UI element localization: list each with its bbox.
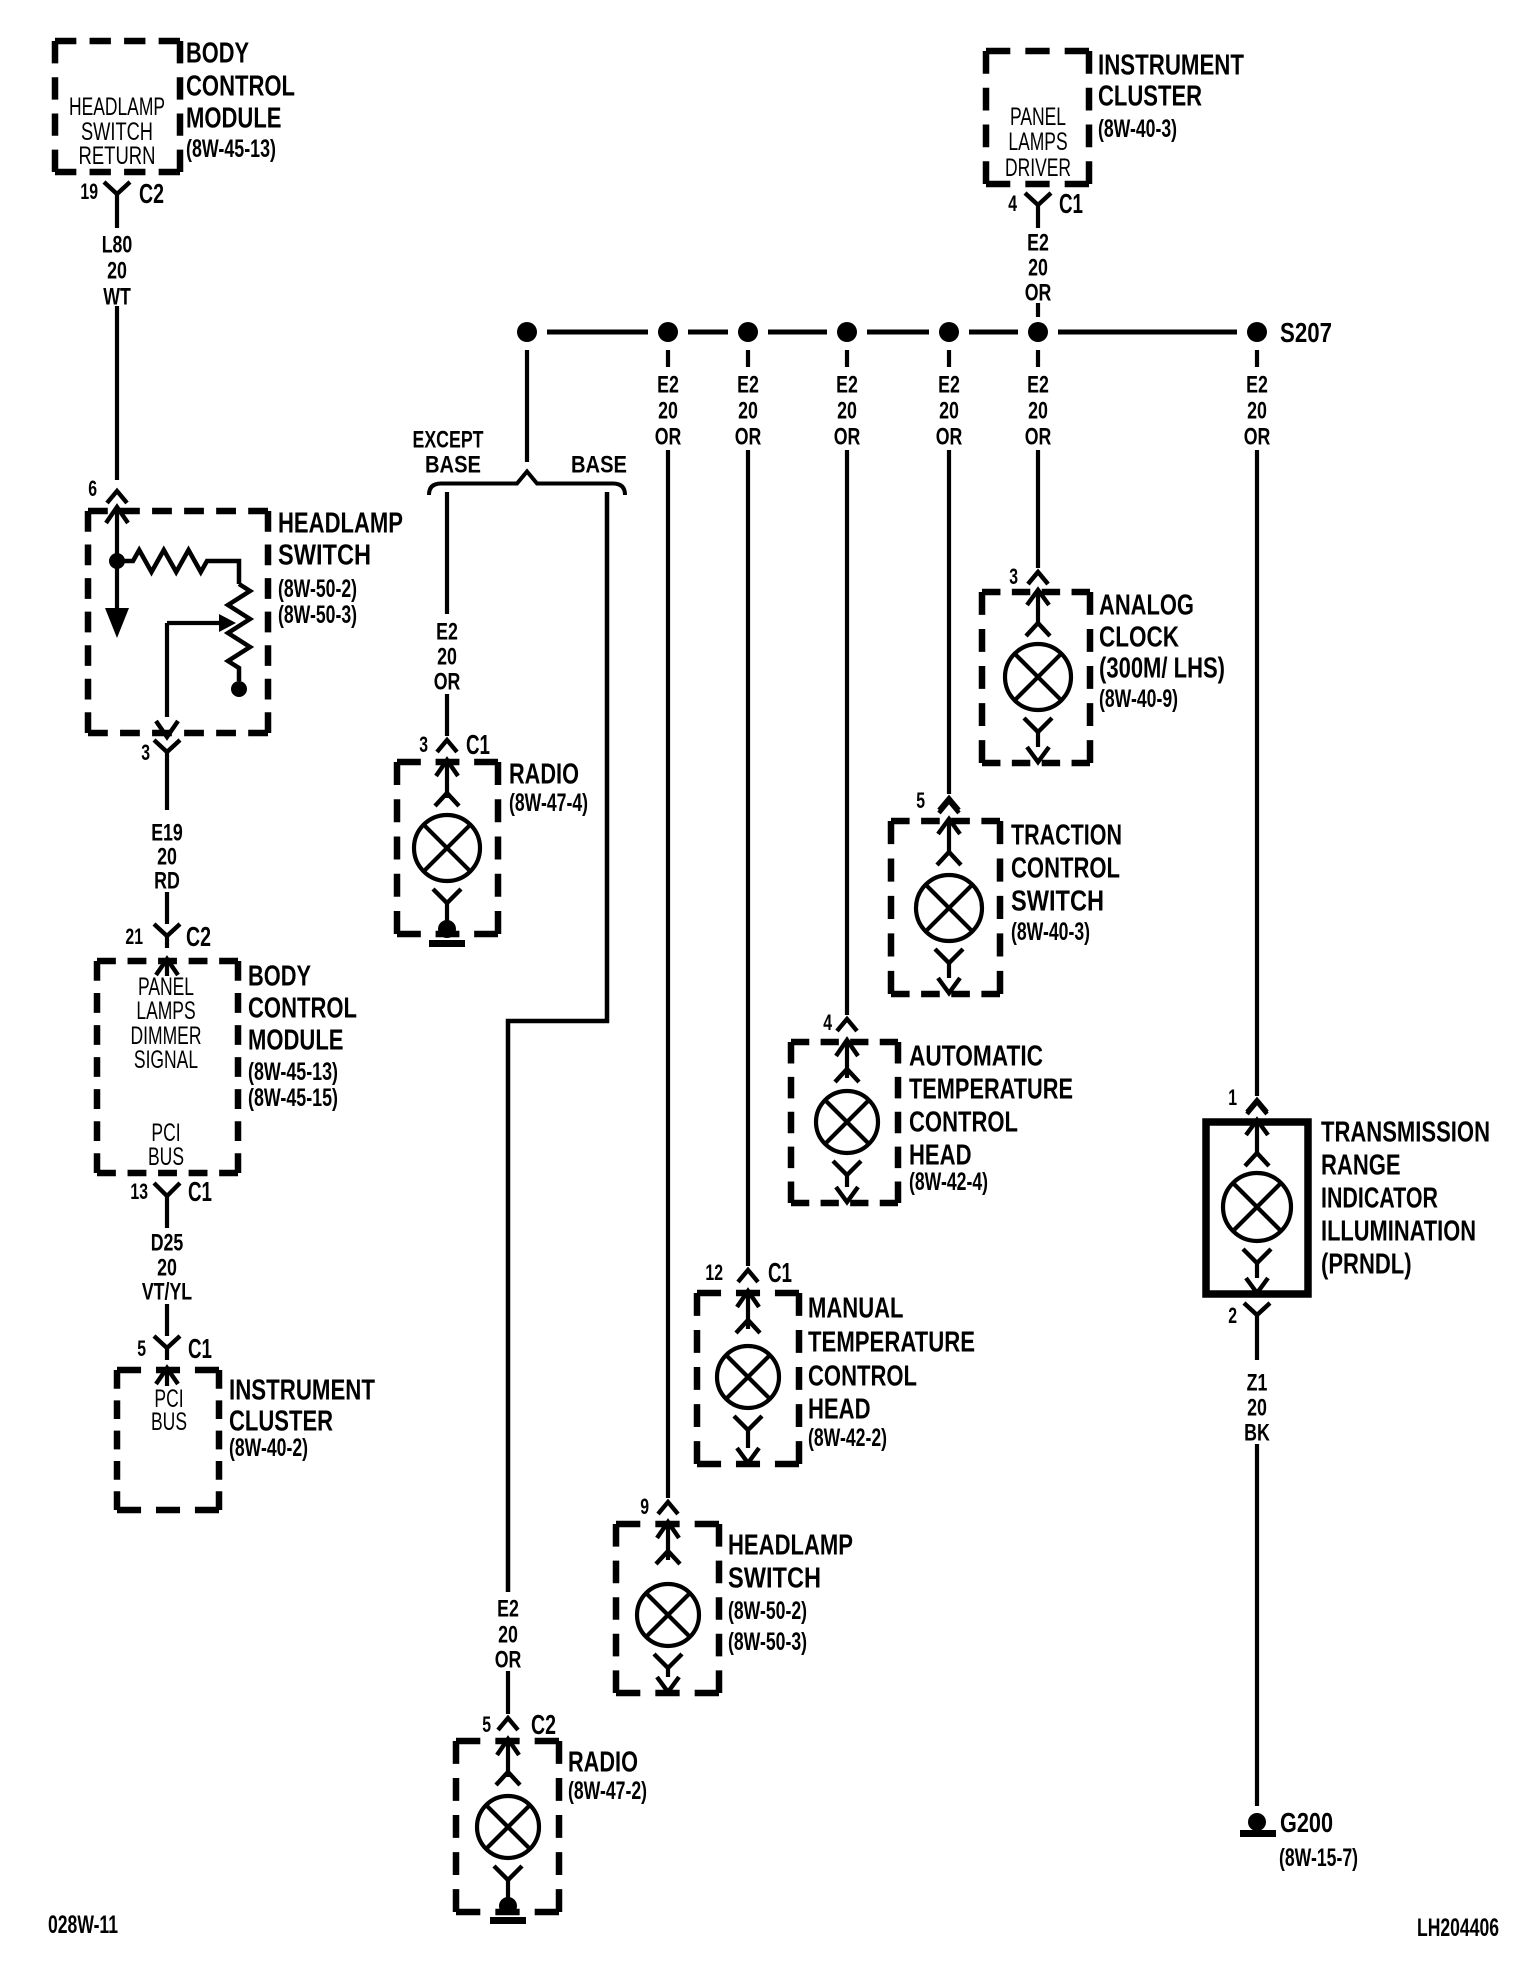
svg-text:OR: OR xyxy=(735,424,762,451)
svg-text:5: 5 xyxy=(916,788,925,813)
svg-text:RANGE: RANGE xyxy=(1321,1149,1401,1181)
svg-text:E2: E2 xyxy=(938,372,960,399)
svg-text:TEMPERATURE: TEMPERATURE xyxy=(808,1326,975,1358)
svg-text:MODULE: MODULE xyxy=(248,1024,344,1056)
svg-text:(8W-40-2): (8W-40-2) xyxy=(229,1434,308,1462)
svg-text:MANUAL: MANUAL xyxy=(808,1292,904,1324)
svg-text:CONTROL: CONTROL xyxy=(1011,852,1120,884)
svg-text:CONTROL: CONTROL xyxy=(248,992,357,1024)
svg-text:OR: OR xyxy=(655,424,682,451)
svg-text:CLOCK: CLOCK xyxy=(1099,621,1179,653)
svg-text:(8W-42-2): (8W-42-2) xyxy=(808,1424,887,1452)
svg-text:(8W-50-3): (8W-50-3) xyxy=(728,1628,807,1656)
svg-text:CONTROL: CONTROL xyxy=(808,1360,917,1392)
svg-text:SIGNAL: SIGNAL xyxy=(134,1046,198,1074)
svg-text:ANALOG: ANALOG xyxy=(1099,589,1194,621)
svg-text:20: 20 xyxy=(939,398,959,425)
svg-text:(8W-47-4): (8W-47-4) xyxy=(509,789,588,817)
svg-text:028W-11: 028W-11 xyxy=(48,1911,118,1939)
svg-text:C1: C1 xyxy=(188,1176,212,1207)
svg-text:C1: C1 xyxy=(1059,188,1083,219)
svg-text:SWITCH: SWITCH xyxy=(728,1562,821,1594)
svg-text:E2: E2 xyxy=(737,372,759,399)
svg-text:OR: OR xyxy=(936,424,963,451)
svg-text:(8W-40-3): (8W-40-3) xyxy=(1011,918,1090,946)
svg-text:TRACTION: TRACTION xyxy=(1011,819,1122,851)
svg-text:21: 21 xyxy=(125,924,143,949)
svg-text:(8W-50-2): (8W-50-2) xyxy=(728,1597,807,1625)
svg-text:20: 20 xyxy=(1247,1395,1267,1422)
svg-text:20: 20 xyxy=(157,1255,177,1282)
svg-text:(8W-42-4): (8W-42-4) xyxy=(909,1168,988,1196)
svg-text:INDICATOR: INDICATOR xyxy=(1321,1182,1438,1214)
svg-text:OR: OR xyxy=(495,1647,522,1674)
svg-text:VT/YL: VT/YL xyxy=(142,1279,192,1306)
svg-text:5: 5 xyxy=(482,1712,491,1737)
svg-text:CLUSTER: CLUSTER xyxy=(1098,80,1202,112)
svg-text:Z1: Z1 xyxy=(1247,1370,1268,1397)
svg-text:2: 2 xyxy=(1228,1303,1237,1328)
svg-text:HEADLAMP: HEADLAMP xyxy=(69,93,165,121)
svg-text:CONTROL: CONTROL xyxy=(186,70,295,102)
svg-text:6: 6 xyxy=(88,476,97,501)
svg-text:BK: BK xyxy=(1244,1420,1270,1447)
svg-text:MODULE: MODULE xyxy=(186,102,282,134)
svg-text:OR: OR xyxy=(1025,424,1052,451)
svg-text:INSTRUMENT: INSTRUMENT xyxy=(229,1374,375,1406)
svg-text:S207: S207 xyxy=(1280,317,1332,348)
svg-text:E2: E2 xyxy=(436,619,458,646)
svg-text:PANEL: PANEL xyxy=(1010,103,1066,131)
svg-text:20: 20 xyxy=(1028,255,1048,282)
svg-text:E2: E2 xyxy=(497,1596,519,1623)
svg-text:(8W-47-2): (8W-47-2) xyxy=(568,1777,647,1805)
svg-text:LAMPS: LAMPS xyxy=(1008,128,1067,156)
svg-text:C2: C2 xyxy=(139,178,164,209)
svg-text:C1: C1 xyxy=(188,1333,212,1364)
svg-text:20: 20 xyxy=(837,398,857,425)
svg-text:INSTRUMENT: INSTRUMENT xyxy=(1098,49,1244,81)
svg-text:OR: OR xyxy=(434,669,461,696)
svg-text:E2: E2 xyxy=(836,372,858,399)
svg-text:(PRNDL): (PRNDL) xyxy=(1321,1248,1412,1280)
svg-text:C1: C1 xyxy=(466,729,490,760)
svg-text:3: 3 xyxy=(141,740,150,765)
svg-text:20: 20 xyxy=(1247,398,1267,425)
svg-text:(8W-45-15): (8W-45-15) xyxy=(248,1084,338,1112)
svg-text:OR: OR xyxy=(1244,424,1271,451)
svg-text:CONTROL: CONTROL xyxy=(909,1106,1018,1138)
svg-text:BODY: BODY xyxy=(248,960,311,992)
svg-text:13: 13 xyxy=(130,1179,148,1204)
svg-text:G200: G200 xyxy=(1280,1807,1333,1838)
svg-text:HEADLAMP: HEADLAMP xyxy=(728,1529,853,1561)
svg-text:E2: E2 xyxy=(1246,372,1268,399)
svg-text:RETURN: RETURN xyxy=(79,142,156,170)
svg-text:3: 3 xyxy=(1009,564,1018,589)
svg-text:RADIO: RADIO xyxy=(568,1746,638,1778)
svg-text:20: 20 xyxy=(658,398,678,425)
svg-text:20: 20 xyxy=(437,644,457,671)
svg-text:1: 1 xyxy=(1228,1085,1237,1110)
svg-text:EXCEPT: EXCEPT xyxy=(413,427,484,454)
svg-text:BASE: BASE xyxy=(425,452,481,479)
svg-text:OR: OR xyxy=(834,424,861,451)
svg-text:WT: WT xyxy=(103,284,131,311)
svg-text:BODY: BODY xyxy=(186,37,249,69)
svg-text:RD: RD xyxy=(154,868,180,895)
svg-text:20: 20 xyxy=(107,258,127,285)
svg-text:(8W-15-7): (8W-15-7) xyxy=(1279,1844,1358,1872)
svg-text:TRANSMISSION: TRANSMISSION xyxy=(1321,1116,1490,1148)
svg-text:20: 20 xyxy=(738,398,758,425)
svg-text:20: 20 xyxy=(1028,398,1048,425)
svg-text:L80: L80 xyxy=(102,232,133,259)
svg-text:HEAD: HEAD xyxy=(808,1393,871,1425)
svg-text:AUTOMATIC: AUTOMATIC xyxy=(909,1040,1043,1072)
svg-text:RADIO: RADIO xyxy=(509,758,579,790)
svg-text:BASE: BASE xyxy=(571,452,627,479)
svg-text:(8W-40-9): (8W-40-9) xyxy=(1099,685,1178,713)
svg-text:4: 4 xyxy=(1008,191,1017,216)
svg-text:12: 12 xyxy=(705,1260,723,1285)
svg-text:D25: D25 xyxy=(151,1230,184,1257)
svg-text:5: 5 xyxy=(137,1336,146,1361)
svg-text:C2: C2 xyxy=(186,921,211,952)
svg-text:4: 4 xyxy=(823,1010,832,1035)
svg-text:DRIVER: DRIVER xyxy=(1005,154,1071,182)
svg-text:20: 20 xyxy=(498,1622,518,1649)
svg-text:OR: OR xyxy=(1025,280,1052,307)
svg-text:(300M/ LHS): (300M/ LHS) xyxy=(1099,652,1225,684)
svg-text:3: 3 xyxy=(419,732,428,757)
svg-text:HEADLAMP: HEADLAMP xyxy=(278,507,403,539)
svg-text:C1: C1 xyxy=(768,1257,792,1288)
svg-text:E2: E2 xyxy=(1027,372,1049,399)
svg-text:E2: E2 xyxy=(1027,230,1049,257)
svg-text:C2: C2 xyxy=(531,1709,556,1740)
svg-text:TEMPERATURE: TEMPERATURE xyxy=(909,1073,1073,1105)
svg-text:LH204406: LH204406 xyxy=(1417,1914,1499,1942)
svg-text:LAMPS: LAMPS xyxy=(136,997,195,1025)
svg-text:9: 9 xyxy=(640,1494,649,1519)
svg-text:HEAD: HEAD xyxy=(909,1139,972,1171)
svg-text:(8W-45-13): (8W-45-13) xyxy=(248,1058,338,1086)
svg-text:SWITCH: SWITCH xyxy=(1011,885,1104,917)
svg-text:CLUSTER: CLUSTER xyxy=(229,1405,333,1437)
svg-text:ILLUMINATION: ILLUMINATION xyxy=(1321,1215,1476,1247)
svg-text:E19: E19 xyxy=(151,820,183,847)
svg-text:19: 19 xyxy=(80,179,98,204)
svg-text:SWITCH: SWITCH xyxy=(278,539,371,571)
svg-text:BUS: BUS xyxy=(148,1143,184,1171)
svg-text:(8W-50-2): (8W-50-2) xyxy=(278,575,357,603)
svg-text:(8W-45-13): (8W-45-13) xyxy=(186,135,276,163)
svg-text:20: 20 xyxy=(157,844,177,871)
svg-text:E2: E2 xyxy=(657,372,679,399)
svg-text:(8W-50-3): (8W-50-3) xyxy=(278,601,357,629)
svg-text:(8W-40-3): (8W-40-3) xyxy=(1098,115,1177,143)
svg-text:BUS: BUS xyxy=(151,1408,187,1436)
